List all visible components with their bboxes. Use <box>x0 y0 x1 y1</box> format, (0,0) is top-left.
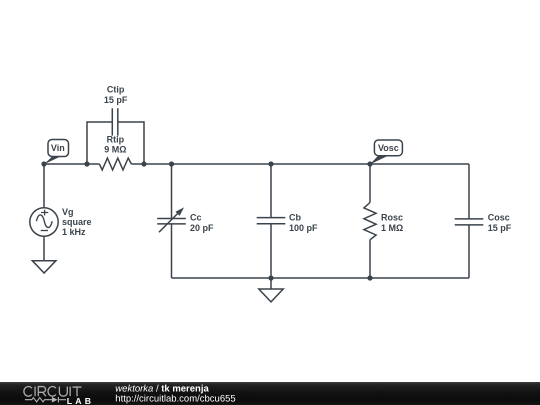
svg-text:Rosc: Rosc <box>381 213 403 223</box>
svg-text:15 pF: 15 pF <box>104 95 128 105</box>
svg-text:Cb: Cb <box>289 213 301 223</box>
svg-text:20 pF: 20 pF <box>190 223 214 233</box>
svg-text:Vosc: Vosc <box>378 143 399 153</box>
svg-text:9 MΩ: 9 MΩ <box>104 144 126 154</box>
svg-text:Rtip: Rtip <box>107 134 125 144</box>
svg-text:Cc: Cc <box>190 213 202 223</box>
svg-text:Cosc: Cosc <box>488 213 510 223</box>
svg-text:1 kHz: 1 kHz <box>62 227 86 237</box>
svg-text:100 pF: 100 pF <box>289 223 318 233</box>
svg-text:http://circuitlab.com/cbcu655: http://circuitlab.com/cbcu655 <box>115 393 235 404</box>
svg-text:1 MΩ: 1 MΩ <box>381 223 403 233</box>
svg-text:Ctip: Ctip <box>107 85 125 95</box>
svg-text:Vin: Vin <box>51 143 65 153</box>
svg-text:Vg: Vg <box>62 207 74 217</box>
svg-text:15 pF: 15 pF <box>488 223 512 233</box>
svg-text:square: square <box>62 217 92 227</box>
svg-text:LAB: LAB <box>67 396 94 405</box>
